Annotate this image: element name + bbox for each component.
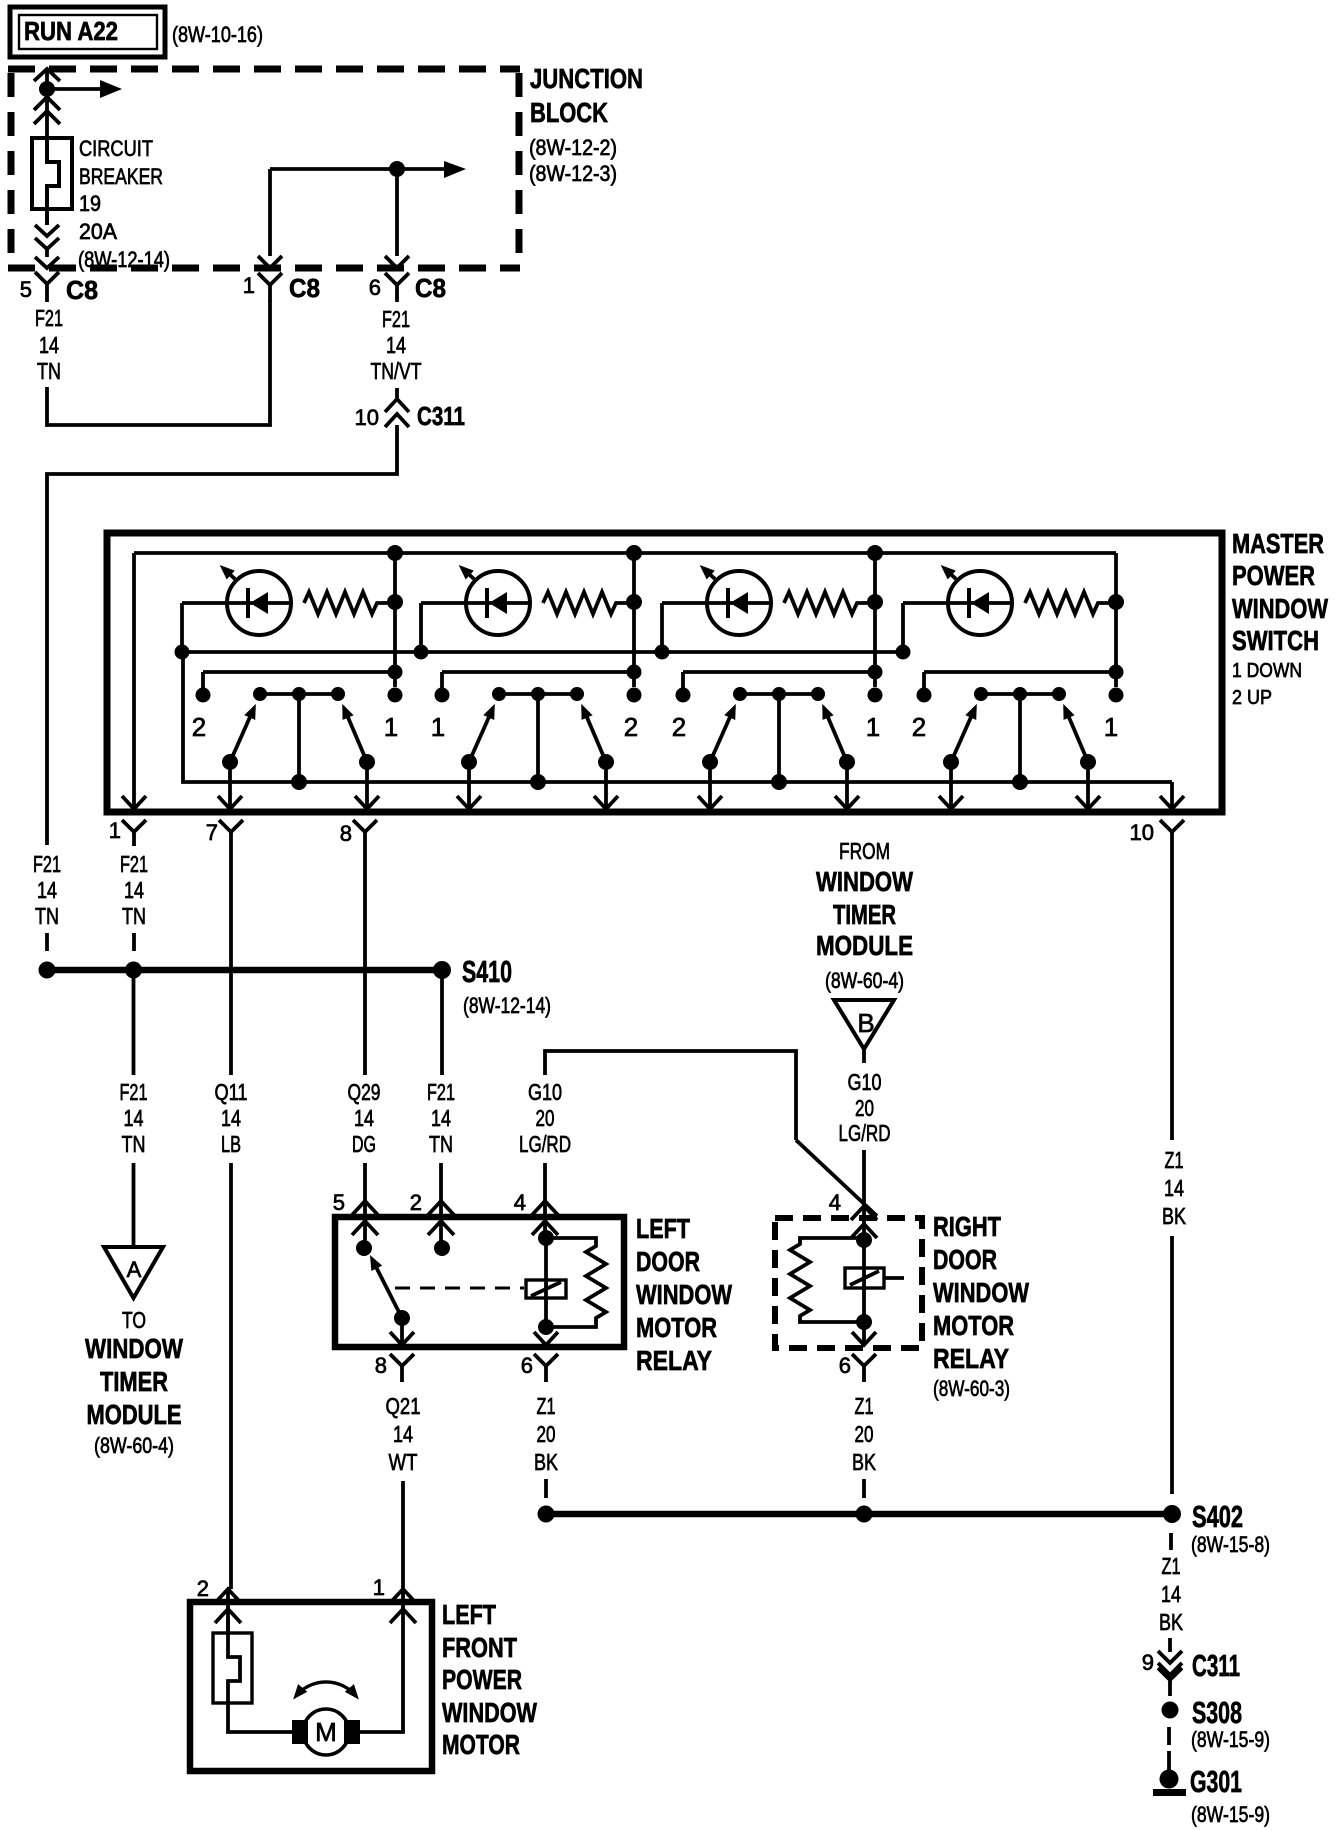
svg-text:20: 20 <box>855 1095 874 1121</box>
svg-text:1: 1 <box>384 712 398 742</box>
svg-text:S308: S308 <box>1192 1695 1242 1730</box>
terminal labels <box>192 712 1118 742</box>
lamp bus <box>182 650 903 654</box>
wire label G10 20 LG/RD (left) <box>519 1079 571 1157</box>
wire pin4 to pin6 inside relay <box>544 1238 548 1327</box>
svg-text:WINDOW: WINDOW <box>636 1279 732 1310</box>
svg-text:WINDOW: WINDOW <box>442 1697 537 1728</box>
svg-text:DOOR: DOOR <box>933 1244 997 1275</box>
svg-text:LG/RD: LG/RD <box>839 1120 891 1146</box>
connector pin 2 into relay <box>428 1201 454 1248</box>
motor rotation arrows <box>296 1682 356 1696</box>
svg-text:Z1: Z1 <box>1165 1147 1184 1173</box>
wire from C311 to master switch feed <box>47 425 397 845</box>
svg-text:1: 1 <box>243 273 255 298</box>
wire label Z1 20 BK (left) <box>534 1393 559 1475</box>
pin 1 feed wire inside box <box>132 553 136 808</box>
svg-text:TN: TN <box>429 1131 453 1157</box>
svg-text:DOOR: DOOR <box>636 1246 700 1277</box>
svg-text:WINDOW: WINDOW <box>1232 593 1328 624</box>
connector pin 1 below switch <box>122 820 146 846</box>
master power window switch box <box>107 533 1222 812</box>
svg-text:G10: G10 <box>848 1069 882 1095</box>
motor M <box>292 1709 360 1755</box>
connector pin 1 into motor <box>390 1589 416 1623</box>
wire G10 from B <box>862 1049 866 1063</box>
wire label F21 14 TN (splice feed left) <box>33 851 61 929</box>
switch feed bus (top) <box>134 551 1116 555</box>
svg-text:Z1: Z1 <box>537 1393 556 1419</box>
svg-text:8: 8 <box>375 1353 387 1378</box>
svg-text:DG: DG <box>352 1131 376 1157</box>
wire F21 from S410 <box>440 978 444 1075</box>
svg-text:FROM: FROM <box>839 838 890 864</box>
svg-text:6: 6 <box>369 275 381 300</box>
svg-text:TN: TN <box>122 1131 146 1157</box>
svg-text:14: 14 <box>393 1421 413 1447</box>
svg-text:(8W-12-14): (8W-12-14) <box>78 247 170 272</box>
wire label F21 14 TN (timer) <box>120 1079 148 1157</box>
dashed stub below S308 <box>1167 1727 1171 1745</box>
wire label Q21 14 WT <box>386 1393 421 1475</box>
circuit breaker 19 20A <box>32 138 72 225</box>
svg-text:LB: LB <box>221 1131 241 1157</box>
wire label F21 14 TN (pin 1) <box>120 851 148 929</box>
svg-text:20: 20 <box>536 1105 555 1131</box>
svg-text:FRONT: FRONT <box>442 1632 517 1663</box>
svg-text:2: 2 <box>672 712 686 742</box>
svg-text:G301: G301 <box>1190 1764 1242 1799</box>
svg-text:C311: C311 <box>417 401 465 431</box>
relay resistor <box>546 1238 606 1327</box>
svg-text:5: 5 <box>333 1190 345 1215</box>
connector pin 4 into right relay <box>851 1206 877 1240</box>
wire label F21 14 TN (relay) <box>427 1079 455 1157</box>
motor circuit breaker <box>213 1620 292 1732</box>
svg-text:MOTOR: MOTOR <box>933 1310 1014 1341</box>
svg-text:M: M <box>315 1717 337 1747</box>
label MASTER POWER WINDOW SWITCH 1 DOWN 2 UP <box>1232 528 1328 709</box>
svg-text:C8: C8 <box>66 275 98 305</box>
svg-text:4: 4 <box>514 1190 526 1215</box>
svg-text:(8W-15-9): (8W-15-9) <box>1191 1802 1270 1827</box>
connector pin 8 out of relay <box>400 1318 404 1345</box>
branch diagonal to right relay pin 4 <box>796 1140 877 1216</box>
wire to A triangle <box>132 1163 136 1248</box>
svg-text:(8W-12-2): (8W-12-2) <box>529 135 617 160</box>
svg-text:19: 19 <box>79 191 101 216</box>
svg-text:LG/RD: LG/RD <box>519 1131 571 1157</box>
svg-text:(8W-12-14): (8W-12-14) <box>463 993 551 1018</box>
left door window motor relay box <box>335 1217 624 1347</box>
svg-text:WINDOW: WINDOW <box>816 866 913 897</box>
svg-text:2 UP: 2 UP <box>1232 687 1272 709</box>
svg-text:14: 14 <box>124 1105 144 1131</box>
junction block dashed border <box>8 69 520 268</box>
wire Q29 into relay pin 5 <box>363 1163 367 1201</box>
svg-text:14: 14 <box>386 332 406 358</box>
svg-text:14: 14 <box>221 1105 241 1131</box>
connector pin 8 below switch <box>353 820 377 846</box>
svg-text:(8W-60-4): (8W-60-4) <box>825 968 904 993</box>
svg-text:20A: 20A <box>79 219 117 244</box>
connector pin 5 into relay <box>352 1201 378 1248</box>
wire label Z1 14 BK (pin 10) <box>1162 1147 1187 1229</box>
wire G10 into relay pin 4 <box>543 1163 547 1201</box>
connector pin 2 into motor <box>215 1589 241 1633</box>
wire label G10 20 LG/RD (right) <box>839 1069 891 1146</box>
svg-text:9: 9 <box>1142 1650 1154 1675</box>
motor armature wire right <box>360 1589 403 1732</box>
wire from pin 1 C8 with branch arrow <box>270 169 444 256</box>
svg-text:A: A <box>127 1257 142 1282</box>
ground bus (bottom) <box>183 652 1172 782</box>
wire into right relay pin 4 <box>862 1150 866 1206</box>
wire label Q11 14 LB <box>215 1079 248 1157</box>
svg-text:F21: F21 <box>382 306 410 332</box>
wire label Z1 14 BK (ground) <box>1159 1553 1184 1635</box>
off-page reference A <box>104 1247 163 1298</box>
svg-text:6: 6 <box>839 1353 851 1378</box>
svg-text:RELAY: RELAY <box>636 1345 712 1376</box>
svg-text:MODULE: MODULE <box>816 930 913 961</box>
svg-text:RUN A22: RUN A22 <box>24 16 118 46</box>
svg-text:TIMER: TIMER <box>100 1366 168 1397</box>
svg-text:(8W-60-4): (8W-60-4) <box>94 1433 174 1458</box>
svg-text:TN: TN <box>122 903 146 929</box>
relay contact terminals <box>356 1240 372 1256</box>
right relay terminals <box>856 1232 872 1248</box>
svg-text:1: 1 <box>373 1575 385 1600</box>
svg-text:S402: S402 <box>1192 1499 1243 1534</box>
svg-text:C311: C311 <box>1192 1648 1240 1683</box>
svg-text:1: 1 <box>866 712 880 742</box>
svg-text:LEFT: LEFT <box>636 1213 690 1244</box>
svg-text:2: 2 <box>192 712 206 742</box>
connector pin 7 below switch <box>219 820 243 846</box>
left front power window motor box <box>190 1602 432 1771</box>
svg-text:S410: S410 <box>462 954 512 989</box>
svg-text:8: 8 <box>340 821 352 846</box>
wire F21 from pin 5 to pin 1 <box>47 300 270 425</box>
wire feed from RUN A22 with up arrow <box>34 69 60 140</box>
svg-text:(8W-10-16): (8W-10-16) <box>172 22 263 47</box>
svg-text:WINDOW: WINDOW <box>933 1277 1029 1308</box>
svg-text:(8W-15-9): (8W-15-9) <box>1191 1727 1270 1752</box>
svg-text:BREAKER: BREAKER <box>79 164 163 189</box>
svg-text:(8W-12-3): (8W-12-3) <box>529 161 617 186</box>
wire Z1 pin 10 to S402 <box>1170 846 1174 1140</box>
right relay resistor <box>790 1238 864 1322</box>
relay switch arm <box>372 1259 402 1318</box>
svg-text:2: 2 <box>624 712 638 742</box>
connector C8 pin 1 <box>258 256 282 302</box>
connector pin 6 out of right relay <box>862 1322 866 1345</box>
wire Q21 from relay pin 8 to motor pin 1 <box>401 1481 405 1589</box>
svg-text:1: 1 <box>431 712 445 742</box>
svg-text:Q21: Q21 <box>386 1393 421 1419</box>
svg-text:F21: F21 <box>120 1079 148 1105</box>
right relay coil <box>845 1268 904 1288</box>
svg-text:BK: BK <box>1162 1203 1187 1229</box>
svg-text:Q29: Q29 <box>348 1079 381 1105</box>
label LEFT DOOR WINDOW MOTOR RELAY <box>636 1213 732 1376</box>
svg-text:B: B <box>857 1008 874 1038</box>
wire F21 to window timer module <box>132 978 136 1075</box>
wire label F21 14 TN/VT <box>371 306 422 384</box>
svg-text:JUNCTION: JUNCTION <box>530 63 643 94</box>
wire Q11 to motor <box>229 1163 233 1589</box>
ground G301 <box>1153 1751 1186 1796</box>
wire Q29 from pin 8 <box>363 846 367 1075</box>
arrow to other circuits <box>47 80 122 98</box>
svg-text:14: 14 <box>1164 1175 1184 1201</box>
label RIGHT DOOR WINDOW MOTOR RELAY (8W-60-3) <box>933 1211 1029 1374</box>
svg-text:Q11: Q11 <box>215 1079 248 1105</box>
svg-text:MOTOR: MOTOR <box>442 1729 520 1760</box>
label TO WINDOW TIMER MODULE (8W-60-4) <box>85 1307 183 1458</box>
svg-text:SWITCH: SWITCH <box>1232 625 1319 656</box>
svg-text:LEFT: LEFT <box>442 1599 496 1630</box>
svg-text:Z1: Z1 <box>1162 1553 1181 1579</box>
window switch unit 2 <box>414 553 643 809</box>
splice S402 bus <box>546 1511 1164 1518</box>
svg-text:10: 10 <box>355 405 379 430</box>
wire Q11 from pin 7 <box>229 846 233 1075</box>
relay coil <box>526 1280 566 1298</box>
label FROM WINDOW TIMER MODULE (8W-60-4) <box>816 838 913 993</box>
svg-text:MASTER: MASTER <box>1232 528 1324 559</box>
dashed feed stubs into splice <box>45 933 49 951</box>
label CIRCUIT BREAKER 19 20A (8W-12-14) <box>78 136 170 272</box>
window switch unit 3 <box>655 553 884 809</box>
svg-text:Z1: Z1 <box>855 1393 874 1419</box>
relay linkage (dashed) <box>395 1287 524 1290</box>
window switch unit 1 <box>175 553 404 809</box>
svg-text:F21: F21 <box>35 305 63 331</box>
svg-text:BK: BK <box>1159 1609 1184 1635</box>
connector pin 4 into relay <box>532 1201 558 1238</box>
svg-text:CIRCUIT: CIRCUIT <box>79 136 153 161</box>
connector pin 6 out of relay <box>534 1332 558 1382</box>
connector C8 pin 6 <box>385 256 409 302</box>
wire label Z1 20 BK (right) <box>852 1393 877 1475</box>
svg-text:BK: BK <box>852 1449 877 1475</box>
svg-text:1: 1 <box>1104 712 1118 742</box>
svg-text:2: 2 <box>410 1190 422 1215</box>
connector C8 pin 5 <box>35 225 59 302</box>
svg-text:F21: F21 <box>33 851 61 877</box>
svg-text:TN: TN <box>35 903 59 929</box>
svg-text:(8W-15-8): (8W-15-8) <box>1191 1532 1270 1557</box>
window switch unit 4 <box>896 553 1125 809</box>
connector pin 10 below switch <box>1160 820 1184 846</box>
svg-text:C8: C8 <box>415 273 446 303</box>
wire F21 into relay pin 2 <box>439 1163 443 1201</box>
svg-text:2: 2 <box>912 712 926 742</box>
svg-text:20: 20 <box>855 1421 874 1447</box>
svg-text:6: 6 <box>521 1353 533 1378</box>
svg-text:14: 14 <box>37 877 57 903</box>
connector C311 pin 10 <box>385 388 409 427</box>
label LEFT FRONT POWER WINDOW MOTOR <box>442 1599 537 1760</box>
right door window motor relay box (dashed) <box>775 1218 922 1348</box>
svg-text:BLOCK: BLOCK <box>530 97 608 128</box>
svg-text:14: 14 <box>354 1105 374 1131</box>
svg-text:1: 1 <box>109 818 121 843</box>
svg-text:14: 14 <box>39 332 59 358</box>
svg-text:14: 14 <box>1161 1581 1181 1607</box>
svg-text:20: 20 <box>537 1421 556 1447</box>
svg-text:F21: F21 <box>427 1079 455 1105</box>
svg-text:10: 10 <box>1130 820 1154 845</box>
svg-text:WT: WT <box>389 1449 418 1475</box>
splice S308 <box>1162 1702 1179 1719</box>
svg-text:5: 5 <box>20 277 32 302</box>
svg-text:WINDOW: WINDOW <box>85 1333 183 1364</box>
svg-text:7: 7 <box>206 820 218 845</box>
dashed stub below S402 <box>1169 1533 1173 1550</box>
svg-text:1 DOWN: 1 DOWN <box>1232 660 1302 682</box>
svg-text:POWER: POWER <box>442 1664 522 1695</box>
off-page reference B <box>834 1000 894 1049</box>
double chevron up on breaker feed <box>34 97 60 124</box>
svg-text:TO: TO <box>122 1307 146 1333</box>
RUN A22 fuse box <box>10 7 165 57</box>
pin 10 wire inside box <box>1170 782 1174 808</box>
svg-text:TN: TN <box>37 358 61 384</box>
wire through right relay <box>862 1240 866 1322</box>
svg-text:MODULE: MODULE <box>87 1399 182 1430</box>
dashed stubs into splice S402 <box>544 1479 548 1498</box>
svg-text:4: 4 <box>829 1190 841 1215</box>
svg-text:14: 14 <box>124 877 144 903</box>
svg-text:2: 2 <box>197 1576 209 1601</box>
svg-text:TN/VT: TN/VT <box>371 358 422 384</box>
svg-text:C8: C8 <box>289 273 320 303</box>
svg-text:TIMER: TIMER <box>833 899 896 930</box>
svg-text:BK: BK <box>534 1449 559 1475</box>
svg-text:RIGHT: RIGHT <box>933 1211 1001 1242</box>
splice S410 bus <box>47 967 442 974</box>
svg-text:POWER: POWER <box>1232 560 1315 591</box>
svg-text:RELAY: RELAY <box>933 1343 1009 1374</box>
connector C311 pin 9 <box>1168 1638 1172 1652</box>
label JUNCTION BLOCK <box>529 63 643 186</box>
svg-text:(8W-60-3): (8W-60-3) <box>933 1376 1010 1401</box>
junction dot <box>39 81 55 97</box>
wire label F21 14 TN (left) <box>35 305 63 384</box>
svg-text:14: 14 <box>431 1105 451 1131</box>
wire label Q29 14 DG <box>348 1079 381 1157</box>
svg-text:F21: F21 <box>120 851 148 877</box>
svg-text:G10: G10 <box>528 1079 562 1105</box>
svg-text:MOTOR: MOTOR <box>636 1312 717 1343</box>
